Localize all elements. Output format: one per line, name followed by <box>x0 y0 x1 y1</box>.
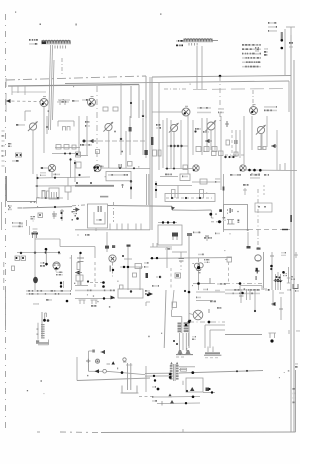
left frame seg <box>5 290 7 330</box>
corner right top <box>288 81 290 112</box>
tuning cap C5 <box>256 125 266 135</box>
elcap col <box>30 226 38 235</box>
page border fold line left <box>5 14 7 430</box>
cap pair comb <box>42 191 45 199</box>
corner x25 <box>25 111 31 121</box>
wire y182 <box>192 181 215 183</box>
wire L2 down b <box>201 46 203 89</box>
edge marks small2 <box>255 47 259 55</box>
wire x146 with part <box>144 116 147 158</box>
wire y153 <box>52 153 75 155</box>
terminal strip bar <box>281 32 284 42</box>
label P <box>31 216 36 220</box>
tuning eye symbol <box>53 262 60 270</box>
part boxes right <box>153 150 162 156</box>
speck <box>160 14 162 15</box>
bus wire right top <box>152 76 291 78</box>
dashed bottom right <box>248 229 290 230</box>
cross tick <box>255 269 260 274</box>
dashes right <box>217 283 226 285</box>
wires x70 x75 <box>69 158 76 182</box>
scan specks <box>27 84 290 395</box>
cable pair <box>147 174 149 205</box>
dash vert x232 <box>231 130 233 160</box>
pilot lamps <box>194 258 203 273</box>
wire x189 long <box>187 233 192 290</box>
corner into tr <box>172 310 182 317</box>
left margin bar <box>5 176 7 201</box>
label P2a <box>29 39 38 45</box>
regulator sym <box>255 255 261 261</box>
marks x264 <box>263 185 265 196</box>
aux box right <box>255 203 272 212</box>
marks right of D4 <box>264 106 277 111</box>
part box x76 <box>76 162 81 176</box>
tuner lines right half <box>152 119 225 121</box>
wire x277 <box>276 130 278 170</box>
resistor R h <box>135 264 142 269</box>
label b <box>152 400 157 402</box>
rail x285 <box>284 29 286 75</box>
T2 base dashes <box>113 338 152 397</box>
labels row right <box>225 289 260 294</box>
wire into D3 <box>152 111 182 113</box>
valve top B <box>204 347 221 358</box>
wire vert x54 <box>53 60 55 120</box>
switch box <box>223 205 249 235</box>
driver transformer windings <box>178 317 192 352</box>
wire y403 <box>157 400 200 406</box>
label 14 <box>12 160 19 162</box>
wire y246 <box>60 247 95 259</box>
tick <box>122 255 124 257</box>
wire C3 down <box>174 130 197 168</box>
notes text block <box>242 44 261 67</box>
main bus y206 <box>23 206 73 208</box>
dark node <box>66 300 69 303</box>
wire right vert a <box>151 77 153 230</box>
bottom border dashes <box>37 431 101 434</box>
wire right vert b <box>149 77 151 230</box>
cap comb a <box>172 190 176 199</box>
right vert x295 <box>295 370 297 432</box>
wire x87 <box>86 116 88 155</box>
IF can comb <box>49 188 59 199</box>
wire right vert c <box>158 83 160 121</box>
junction node <box>219 75 222 78</box>
wire x130 with part <box>129 116 132 155</box>
wire x79 <box>78 116 80 155</box>
wire L2 down a <box>196 46 198 89</box>
cap sym <box>205 236 209 241</box>
wire x188 <box>187 116 189 174</box>
wire y259 <box>124 258 132 260</box>
right edge tick <box>294 252 298 258</box>
box M <box>180 174 190 181</box>
wire bend down <box>145 76 147 118</box>
arrow into box <box>73 208 79 211</box>
marks x288 295 <box>287 289 299 292</box>
wire y267 <box>120 266 143 268</box>
wire y147 <box>55 147 80 149</box>
trimmer arrow <box>83 140 86 143</box>
wire y392 <box>203 391 215 393</box>
labels y224 <box>12 222 23 227</box>
left edge wire <box>5 93 7 112</box>
wire x263 <box>263 252 265 290</box>
mixer diode D1 <box>40 97 48 107</box>
wire y185 left <box>35 185 75 187</box>
bottom tick <box>182 429 184 432</box>
wire D1 down <box>43 107 45 154</box>
wire x166 long <box>164 290 166 348</box>
arrow pot <box>75 271 82 275</box>
wire fan down <box>55 270 57 272</box>
tick marks above bus <box>76 182 92 184</box>
label 7 <box>40 262 45 267</box>
tuner unit box <box>88 204 108 228</box>
wire y185 <box>156 185 192 187</box>
wire x262 <box>261 133 263 150</box>
label 11c <box>91 305 97 307</box>
corner box node <box>209 209 222 218</box>
corner bracket top right <box>286 27 295 35</box>
crystal dark <box>32 233 39 239</box>
resistor R row1 <box>16 153 22 157</box>
wire Q4 right <box>246 169 297 176</box>
wire x126 <box>125 131 127 168</box>
socket cluster <box>270 268 285 290</box>
wire x193 <box>192 120 194 155</box>
dash x258b <box>257 232 261 250</box>
comb top <box>63 127 123 141</box>
wire y247 <box>150 243 172 247</box>
marks right of D3 <box>197 107 211 113</box>
marks far right <box>289 330 300 334</box>
label 24 <box>72 100 79 102</box>
marks x209 <box>209 307 222 313</box>
label 1.1 <box>16 124 25 126</box>
terminal dot <box>281 47 284 50</box>
small part <box>103 107 118 111</box>
tick x272 <box>270 252 274 290</box>
marks col x72 <box>72 211 77 221</box>
wire x240 <box>239 130 241 158</box>
bracket right <box>293 284 298 289</box>
wire x252 <box>251 116 253 150</box>
left tick pair <box>5 78 7 87</box>
relay box <box>65 177 71 200</box>
speck <box>76 24 77 26</box>
dark blob <box>256 268 258 271</box>
edge marks small <box>264 48 268 56</box>
ticks right y165 <box>280 163 285 170</box>
wire D4 up dash <box>252 90 254 107</box>
magic eye <box>109 255 116 262</box>
wire x89 down <box>88 364 90 371</box>
bus y252 seg <box>172 251 187 253</box>
dash-dot vert x258 <box>257 189 259 232</box>
dots near tr <box>173 336 196 345</box>
wire x107 top <box>105 232 115 252</box>
wire Q4 up <box>243 116 245 164</box>
label eq <box>40 172 46 176</box>
mixer diode D4 <box>250 105 258 115</box>
wire C1 down <box>32 130 34 174</box>
sym row <box>86 358 127 370</box>
wire x35 long <box>34 232 36 290</box>
dash bit2 <box>19 223 23 224</box>
cable pair bottom <box>126 363 132 390</box>
io box bl <box>158 225 182 245</box>
tuner box top left <box>58 121 74 127</box>
label 5 <box>144 262 149 268</box>
marks col x241 <box>239 289 244 303</box>
bus right of box <box>108 205 173 208</box>
wire x248 tick <box>247 232 251 249</box>
right border line b <box>293 60 295 432</box>
label 9 <box>265 289 270 291</box>
bus dashdot seg <box>72 205 88 206</box>
marks <box>33 299 52 305</box>
wire x207 <box>206 118 208 152</box>
wire C4 down <box>210 130 212 150</box>
wire x131 down <box>130 86 132 118</box>
pot arrow 1 <box>89 139 96 143</box>
osc vert dash <box>219 76 221 122</box>
box small <box>225 257 232 262</box>
part boxes right2 <box>212 151 224 156</box>
bus wire second left <box>8 85 139 87</box>
left inner frame <box>1 202 3 230</box>
IF can T1 <box>36 312 49 345</box>
wire x121 <box>120 83 122 155</box>
oscillator coil L2 <box>183 39 218 46</box>
tick t <box>121 184 124 188</box>
wire y198 <box>37 197 63 199</box>
cap plus lead <box>52 211 57 219</box>
labels row left <box>26 290 71 295</box>
wire bend down inner <box>138 85 140 119</box>
dash-dot x113 <box>113 202 115 222</box>
small boxes mid <box>258 147 266 150</box>
wire x167b <box>165 247 172 268</box>
mixer diode D2 <box>88 97 96 107</box>
cap comb b <box>200 190 204 199</box>
dash-dot y283 <box>225 282 262 285</box>
junction dot row <box>170 145 183 147</box>
wire x77 elbow <box>77 357 150 381</box>
mark L <box>218 108 224 113</box>
dark tri a <box>190 387 194 391</box>
wire x47 <box>46 116 48 134</box>
wire x128 <box>127 245 131 291</box>
valve top A <box>176 350 193 357</box>
node 1 <box>152 379 159 390</box>
speck <box>40 24 42 26</box>
wide box dashed <box>165 194 215 202</box>
electrolytic <box>60 209 64 221</box>
part box y163 <box>128 162 133 167</box>
dark bar x152 <box>151 137 153 145</box>
marks x281 <box>279 292 284 320</box>
comb ticks <box>110 224 141 230</box>
wire x163 <box>162 120 164 168</box>
marks col x247 <box>247 289 251 300</box>
ps box top <box>240 286 262 291</box>
dash x171 <box>170 268 172 290</box>
transistor Q2 <box>93 165 104 172</box>
pot arrow 2 <box>205 139 212 143</box>
revision column text <box>268 22 277 32</box>
tick G <box>146 302 150 306</box>
wire y292 right <box>196 289 225 293</box>
wire y397 <box>158 394 200 399</box>
marks 1. <box>230 174 241 176</box>
dash x228 <box>228 262 230 283</box>
wire x46 <box>45 248 48 266</box>
right border text2 <box>295 363 298 368</box>
right tuner top edge <box>193 89 285 90</box>
wire x140 <box>139 267 141 290</box>
trimmer boxes row <box>196 147 217 152</box>
junction dots y157 <box>224 156 234 158</box>
tuning cap C1 <box>28 121 38 131</box>
wire x174 <box>172 290 177 310</box>
arrow left edge <box>149 292 154 296</box>
labels bottom <box>152 396 172 398</box>
wire x71 <box>70 255 72 290</box>
wire x236 caps <box>234 130 238 157</box>
tuning cap C3 <box>169 123 179 133</box>
marks x87 <box>85 121 90 127</box>
junction <box>130 180 132 182</box>
labels row mid <box>75 290 115 292</box>
label L2 <box>176 40 183 46</box>
avc dash vert <box>61 58 63 76</box>
heavy gray bus <box>75 186 114 198</box>
border marks left <box>2 130 5 167</box>
motor sym M2 <box>189 310 203 320</box>
wire Q1 down <box>51 172 53 177</box>
bus wire AV line left <box>6 76 146 80</box>
label 7b <box>204 259 210 263</box>
speck <box>15 12 16 13</box>
relay box2 <box>76 275 83 285</box>
res boxes <box>12 256 26 271</box>
wire x221 <box>220 116 222 190</box>
dot y277 <box>156 276 163 278</box>
wire x198 down <box>198 271 200 291</box>
marks left col <box>8 205 27 226</box>
dash y222 node <box>211 209 228 223</box>
wire x223 <box>223 174 225 232</box>
wire x267 <box>266 116 268 147</box>
filter comb <box>57 100 70 105</box>
parts row mid-left <box>56 144 92 149</box>
terminal M <box>172 233 178 241</box>
marks y130 <box>195 128 209 133</box>
wire x37 <box>36 174 38 198</box>
part box <box>183 165 188 170</box>
wire C2 down <box>108 131 110 169</box>
agc dash line <box>164 88 187 90</box>
bus y258 <box>150 254 232 259</box>
cap on wire <box>119 164 121 168</box>
box w dot <box>38 213 43 218</box>
resistor R row2 <box>76 152 81 157</box>
wire y222 bl <box>158 221 177 223</box>
wire y298 <box>75 296 115 300</box>
transistor Q3 <box>193 165 199 171</box>
mark right of box <box>206 388 211 392</box>
wire y177 <box>36 174 90 180</box>
junction <box>130 102 132 104</box>
left small caps <box>225 121 230 145</box>
label 12-1 <box>193 232 220 235</box>
tick marks x245 <box>243 188 247 195</box>
wire x159 <box>156 120 161 170</box>
speaker dot <box>269 333 277 343</box>
block box2 <box>118 289 143 298</box>
tuning cap C4 <box>206 121 217 132</box>
part box <box>200 179 207 184</box>
wire x202 <box>201 118 203 155</box>
dash bit <box>9 207 22 209</box>
bottom border <box>101 431 296 434</box>
wire x244 <box>243 116 245 164</box>
edge marks <box>289 42 293 48</box>
wire x156 <box>155 181 157 198</box>
box innards <box>73 206 105 231</box>
dash y322 <box>188 321 225 324</box>
wire y168 mid <box>165 168 193 170</box>
wire x171 <box>170 120 172 168</box>
mixer diode D3 <box>182 106 190 116</box>
junction <box>142 115 144 117</box>
dash y282 <box>90 281 105 288</box>
dash x112 down <box>110 263 115 279</box>
tuning cap C2 <box>103 122 113 132</box>
wire x167 <box>166 118 168 170</box>
marks y176 right <box>250 174 269 179</box>
wire into Q1 <box>40 167 48 169</box>
bus stair <box>171 206 211 210</box>
mark box <box>120 285 124 289</box>
dark mark B <box>146 273 149 278</box>
dash left x4 <box>3 262 5 290</box>
marks right box <box>145 290 150 296</box>
cable base <box>121 386 139 394</box>
dash y155 right <box>225 154 245 156</box>
wire y146 <box>167 145 188 147</box>
wire C5 down <box>260 134 262 151</box>
cap box <box>133 273 137 277</box>
box y275 <box>175 273 181 278</box>
label C2 <box>243 184 249 186</box>
wire D2 dash <box>96 86 98 168</box>
wire y300 right <box>196 297 216 303</box>
output transformer T2 <box>145 362 263 392</box>
bracket tl <box>89 350 95 372</box>
wire x131 down <box>130 181 132 199</box>
wire y239 <box>35 239 60 247</box>
wire x178 <box>177 186 179 199</box>
wire y334 <box>225 334 262 336</box>
res network left <box>77 252 84 285</box>
dark bar right edge <box>290 215 292 222</box>
part box <box>96 150 100 154</box>
